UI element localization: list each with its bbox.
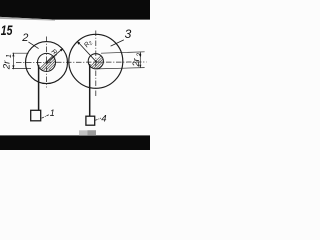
gear 2 outer circle bbox=[26, 42, 68, 84]
svg-text:4: 4 bbox=[101, 114, 106, 125]
drum r1 hub circle bbox=[38, 53, 56, 71]
leader for label 1 bbox=[42, 115, 49, 119]
leader for label 3 bbox=[111, 40, 124, 46]
radius arrow R2 bbox=[77, 41, 96, 61]
gray shadow block under weight 4 bbox=[79, 130, 96, 135]
rope from drum r2 to weight 4 bbox=[89, 64, 91, 116]
drum r2 hatching bbox=[87, 44, 126, 70]
gear 3 outer circle bbox=[69, 34, 123, 88]
dimension text 2r2 bbox=[131, 53, 143, 68]
dimension 2r2 extension lines bbox=[101, 52, 145, 53]
vertical centerline gear 3 bbox=[95, 31, 97, 98]
label R1 bbox=[49, 48, 60, 59]
vertical centerline gear 2 bbox=[46, 37, 48, 88]
top band gray edge bbox=[0, 17, 55, 21]
bottom black scan band bbox=[0, 135, 150, 150]
svg-text:3: 3 bbox=[125, 27, 132, 41]
svg-text:1: 1 bbox=[6, 54, 13, 58]
weight 1 box bbox=[31, 110, 41, 121]
rope from drum r1 to weight 1 bbox=[38, 65, 40, 111]
label R2 bbox=[83, 39, 94, 50]
dimension 2r1 extension lines bbox=[12, 52, 28, 54]
dimension 2r2 line bbox=[139, 52, 141, 68]
axle dot gear 3 bbox=[95, 60, 97, 62]
dimension text 2r1 bbox=[1, 54, 13, 70]
axle dot gear 2 bbox=[45, 61, 47, 63]
dimension 2r2 arrows bbox=[139, 52, 141, 55]
svg-text:2: 2 bbox=[136, 53, 143, 58]
leader for label 2 bbox=[28, 42, 38, 49]
leader for label 4 bbox=[95, 118, 101, 120]
svg-text:2: 2 bbox=[21, 32, 28, 44]
dimension 2r1 line bbox=[12, 53, 14, 70]
paper background bbox=[0, 0, 150, 150]
weight 4 box bbox=[86, 116, 95, 125]
drum r1 hatching bbox=[38, 44, 77, 70]
svg-text:2r: 2r bbox=[131, 57, 141, 67]
radius arrow R1 bbox=[47, 48, 64, 63]
svg-text:2r: 2r bbox=[1, 60, 12, 70]
drum r2 hub circle bbox=[88, 54, 103, 69]
svg-text:1: 1 bbox=[50, 108, 55, 118]
dimension 2r1 arrows bbox=[12, 53, 14, 56]
horizontal centerline bbox=[16, 61, 147, 63]
svg-text:15: 15 bbox=[1, 22, 14, 38]
top black scan band bbox=[0, 0, 150, 20]
